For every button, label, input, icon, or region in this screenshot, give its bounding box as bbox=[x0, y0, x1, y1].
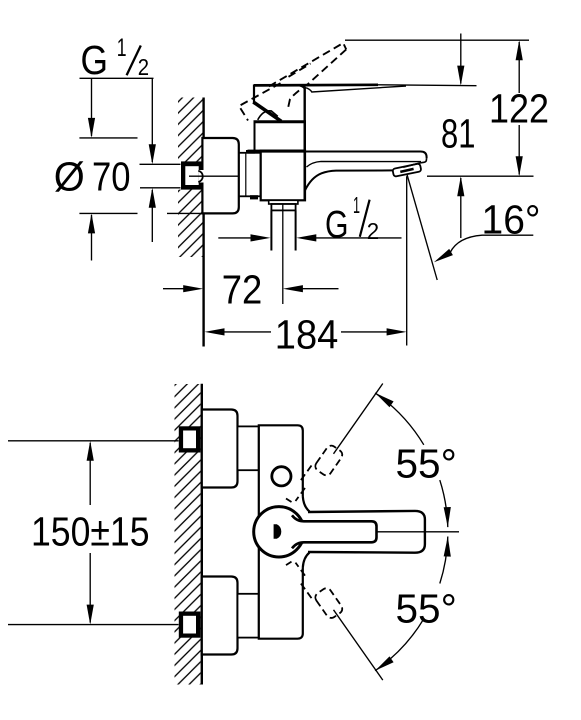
cartridge dome arc bbox=[258, 111, 278, 120]
svg-text:184: 184 bbox=[275, 311, 339, 357]
wall line (bottom view) bbox=[201, 384, 203, 685]
svg-text:2: 2 bbox=[367, 218, 379, 244]
diverter button circle bbox=[272, 467, 291, 486]
dimension 122 extension+line bbox=[345, 39, 529, 41]
shower outlet flange bbox=[269, 200, 298, 204]
16 deg slant line bbox=[407, 175, 437, 280]
G1/2 wall fitting square bbox=[175, 161, 182, 189]
fitting square bottom bbox=[179, 612, 201, 638]
dashed rotated lever upper + 55° arc bbox=[286, 384, 451, 528]
svg-text:G: G bbox=[325, 204, 349, 247]
dimension 184 line bbox=[222, 331, 271, 333]
16 deg leader bbox=[450, 235, 533, 252]
outlet G1/2 dimension line bbox=[218, 237, 252, 239]
spout inner top line bbox=[307, 161, 422, 167]
connector nut bbox=[239, 153, 261, 197]
svg-text:G: G bbox=[81, 37, 109, 83]
outlet centerline bbox=[282, 205, 284, 305]
svg-text:70: 70 bbox=[92, 154, 131, 200]
faceplate body bbox=[259, 425, 303, 638]
cartridge housing bbox=[255, 122, 306, 151]
hub circle bbox=[254, 507, 304, 557]
lever handle (solid, rest position) bbox=[254, 83, 378, 86]
svg-text:55°: 55° bbox=[396, 585, 457, 631]
spout top edge bbox=[305, 152, 427, 159]
svg-text:122: 122 bbox=[489, 85, 549, 131]
lever slot bbox=[292, 515, 377, 548]
wall line (top view) bbox=[202, 98, 204, 347]
svg-text:150±15: 150±15 bbox=[31, 508, 150, 554]
dashed rotated lever lower + 55° arc (mirror) bbox=[286, 536, 451, 680]
arrowheads top view bbox=[88, 118, 95, 138]
centerline through fitting and body bbox=[189, 175, 305, 177]
aerator slot bbox=[400, 169, 413, 172]
lever arm outline bbox=[308, 511, 425, 553]
spout underside bbox=[305, 170, 393, 190]
escutcheon top (front) bbox=[202, 410, 238, 488]
wall hatch (bottom view) bbox=[175, 384, 201, 685]
svg-text:1: 1 bbox=[117, 34, 127, 62]
nut top (front) bbox=[238, 426, 259, 470]
escutcheon bottom (front) bbox=[202, 577, 238, 655]
aerator (mousseur) bbox=[392, 163, 421, 176]
escutcheon (wall rosette, side) bbox=[202, 138, 238, 213]
svg-text:1: 1 bbox=[353, 192, 360, 218]
hub center blob bbox=[274, 524, 282, 539]
dimension 81 line bbox=[460, 34, 462, 84]
body block bbox=[261, 151, 305, 201]
svg-text:72: 72 bbox=[222, 266, 262, 312]
fitting square top bbox=[179, 426, 201, 452]
svg-text:Ø: Ø bbox=[54, 154, 85, 200]
dimension G 1/2 (wall thread) baseline bbox=[80, 77, 154, 79]
spout tip step bbox=[403, 158, 426, 167]
fillet faceplate to arm bottom bbox=[303, 553, 310, 568]
svg-text:16°: 16° bbox=[482, 196, 541, 242]
dimension 150±15 bbox=[8, 441, 179, 625]
dimension 72 line bbox=[163, 288, 185, 290]
centerline right bbox=[377, 531, 459, 533]
dimension Ø70 extension lines bbox=[91, 215, 93, 261]
wall hatch (top view) bbox=[178, 98, 203, 258]
svg-text:81: 81 bbox=[441, 110, 475, 156]
shower outlet pipe bbox=[270, 210, 272, 250]
lever handle (dashed, raised position) bbox=[239, 43, 346, 121]
nut bottom (front) bbox=[238, 594, 259, 638]
spout tip extension vertical bbox=[406, 176, 408, 345]
fillet faceplate to arm top bbox=[303, 497, 310, 512]
svg-text:2: 2 bbox=[138, 54, 149, 80]
svg-text:55°: 55° bbox=[396, 440, 457, 486]
